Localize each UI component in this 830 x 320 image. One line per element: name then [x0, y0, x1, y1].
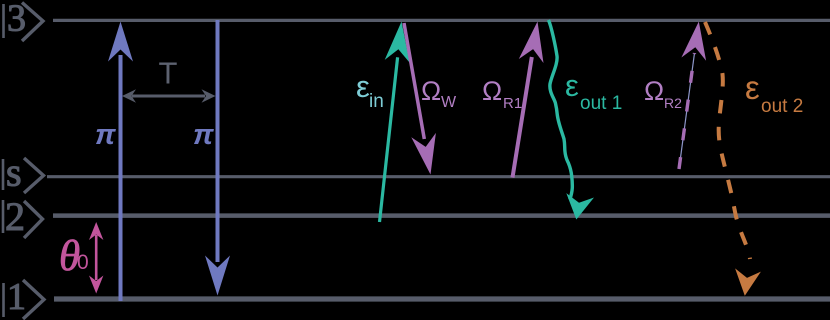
svg-text:W: W — [441, 94, 457, 111]
pi pulse arrow 1 (up) — [108, 22, 133, 302]
Omega_R2 arrow — [679, 22, 706, 170]
svg-text:2: 2 — [5, 194, 25, 239]
svg-text:ε: ε — [356, 69, 370, 104]
epsilon_in arrow — [380, 22, 410, 223]
level line |2> — [53, 213, 830, 218]
level line |3> — [53, 19, 830, 22]
T dimension arrow — [122, 89, 216, 103]
epsilon_out1 wavy arrow — [549, 20, 595, 220]
level line |s> — [47, 175, 830, 178]
svg-text:Ω: Ω — [421, 76, 441, 106]
svg-text:out 2: out 2 — [761, 96, 803, 117]
svg-text:ε: ε — [565, 68, 579, 103]
level line |1> — [54, 296, 830, 301]
pi pulse arrow 2 (down) — [205, 20, 230, 296]
svg-text:Ω: Ω — [482, 76, 502, 106]
svg-text:out 1: out 1 — [580, 93, 622, 114]
ket |2> — [3, 194, 43, 239]
Omega_W arrow — [404, 23, 436, 175]
svg-text:in: in — [369, 91, 384, 112]
svg-text:π: π — [95, 119, 116, 151]
ket |3> — [4, 0, 44, 41]
epsilon_out2 dashed arrow — [705, 22, 761, 296]
svg-text:R1: R1 — [503, 95, 522, 112]
svg-text:3: 3 — [7, 0, 26, 40]
svg-text:Ω: Ω — [644, 76, 664, 106]
svg-text:T: T — [159, 56, 178, 91]
theta0 double arrow — [89, 222, 103, 294]
svg-text:ε: ε — [745, 69, 760, 106]
svg-text:R2: R2 — [664, 95, 682, 111]
svg-text:s: s — [6, 150, 22, 195]
ket |1> — [4, 276, 45, 319]
ket |s> — [3, 150, 44, 195]
Omega_R1 arrow — [513, 22, 544, 178]
svg-text:π: π — [193, 119, 214, 151]
svg-text:0: 0 — [77, 251, 89, 274]
